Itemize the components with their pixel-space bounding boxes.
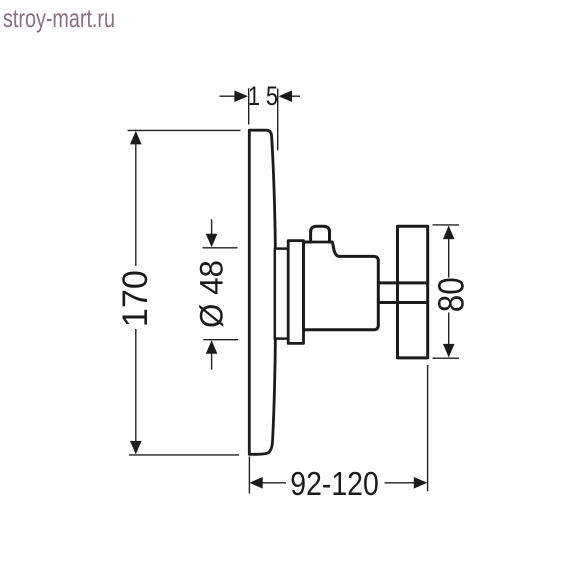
arrowhead d48 up — [206, 340, 218, 354]
dim 80 line lower — [448, 313, 450, 357]
svg-text:Ø 48: Ø 48 — [194, 260, 230, 328]
dim 170 line lower — [135, 329, 137, 453]
svg-text:80: 80 — [430, 277, 471, 312]
dim 80 extension top — [433, 224, 459, 226]
svg-text:stroy-mart.ru: stroy-mart.ru — [3, 3, 115, 33]
dim 15 tail right — [292, 95, 301, 97]
dim 15 tail left — [220, 95, 235, 97]
sleeve rear section — [275, 249, 288, 339]
dim 92-120 line right — [385, 482, 416, 484]
dim 92-120 extension left — [248, 457, 250, 494]
handle bar (vertical) — [398, 226, 428, 358]
dim 80 line upper — [448, 227, 450, 278]
arrowhead 80 bottom — [443, 344, 455, 358]
arrowhead 15 left — [234, 90, 248, 102]
dim d48 stem top — [211, 219, 213, 235]
dim 92-120 line left — [262, 482, 287, 484]
dim d48 tick top — [203, 247, 238, 249]
dim 170 extension top — [128, 129, 241, 131]
dim 15 extension right — [277, 89, 279, 151]
valve body step edge through button base — [310, 241, 331, 244]
dim 15 extension left — [248, 88, 250, 124]
sleeve flange — [288, 241, 303, 344]
svg-text:170: 170 — [116, 270, 155, 327]
dim 80 extension bottom — [433, 357, 459, 359]
arrowhead 170 bottom — [130, 441, 142, 455]
arrowhead 92-120 right — [414, 477, 428, 489]
dim 170 extension bottom — [129, 454, 239, 456]
handle spoke upper line — [378, 281, 427, 284]
arrowhead 80 top — [443, 226, 455, 240]
arrowhead 15 right — [279, 90, 293, 102]
valve body with button — [304, 226, 379, 330]
arrowhead d48 down — [206, 234, 218, 248]
dim 170 line upper — [135, 133, 137, 267]
dim d48 tick bottom — [203, 339, 238, 341]
handle spoke lower line — [378, 301, 427, 304]
svg-text:1 5: 1 5 — [248, 81, 278, 111]
dim d48 stem bottom — [211, 353, 213, 370]
svg-text:92-120: 92-120 — [290, 465, 379, 502]
escutcheon plate (side view) — [249, 130, 275, 454]
dim 92-120 extension right — [427, 365, 429, 491]
arrowhead 92-120 left — [249, 477, 263, 489]
arrowhead 170 top — [130, 131, 142, 145]
